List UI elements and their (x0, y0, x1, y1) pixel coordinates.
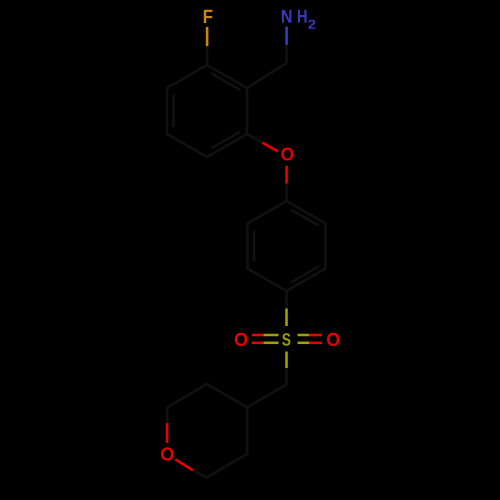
atom label O oxane (161, 447, 174, 460)
ring2 inner double bond lines (291, 210, 319, 226)
ring1 inner double bond lines (212, 74, 241, 91)
S=O right double bond (red halves near O) (309, 334, 322, 337)
oxane ring dark bonds C6-C5-C4 (207, 408, 248, 478)
benzene ring 2 (middle, dark bonds) (248, 201, 326, 291)
bond F-C (carbon half, dark) (206, 46, 209, 65)
bond ring2 to S (carbon half, dark) (285, 291, 288, 309)
S=O right double bond (sulfur halves, olive) (298, 334, 310, 337)
bond O oxane to C6 (oxygen half, red) (175, 459, 193, 470)
bond ring1-C to O ether (carbon half, dark) (247, 134, 262, 143)
atom label F (204, 10, 213, 23)
bond ring2 to S (sulfur half, olive) (285, 309, 288, 327)
oxane ring dark bonds C4-C3-C2 (167, 384, 247, 408)
atom label O sulfonyl left (235, 333, 247, 346)
bond O ether to ring2 (oxygen half, red) (285, 166, 288, 184)
bond N-CH2 (nitrogen half, blue) (285, 27, 288, 45)
bond O ether to ring2 (carbon half, dark) (285, 184, 288, 202)
wire CH2-ring1 (247, 63, 287, 88)
S=O left double bond (sulfur halves, olive) (264, 334, 279, 337)
bond N-CH2 (carbon half, dark) (285, 45, 288, 63)
bond C2 to O oxane (oxygen half, red) (166, 423, 169, 443)
bond F-C (fluorine half, gold) (206, 27, 209, 46)
bond S to CH2 below (sulfur half, olive) (285, 352, 288, 369)
wire CH2 to oxane C4 (247, 385, 287, 408)
atom label O sulfonyl right (327, 333, 339, 346)
bond S to CH2 below (carbon half, dark) (285, 368, 288, 385)
bond ring1-C to O ether (oxygen half, red) (262, 143, 277, 152)
atom label NH2 (282, 10, 292, 23)
benzene ring 1 (dark bonds) (167, 65, 247, 157)
atom label S sulfonyl (282, 333, 290, 346)
atom label O ether (281, 148, 293, 161)
bond C2 to O oxane (carbon half, dark) (166, 408, 169, 424)
S=O left double bond (red halves near O) (252, 334, 264, 337)
bond O oxane to C6 (carbon half, dark) (193, 470, 207, 477)
